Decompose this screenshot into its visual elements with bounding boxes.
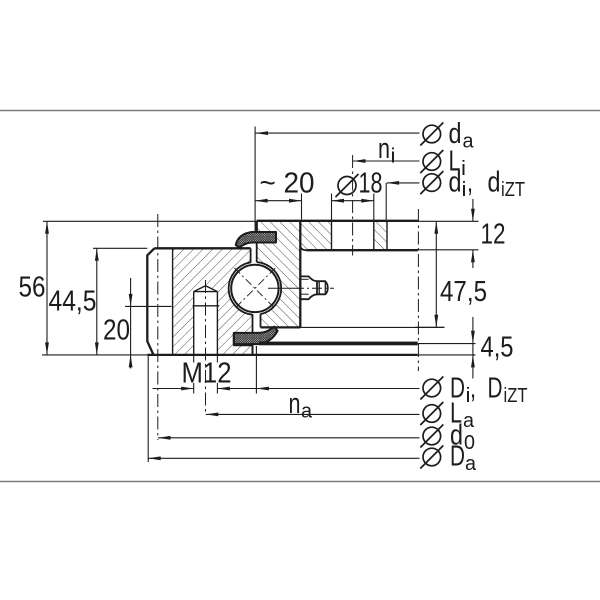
svg-text:n: n bbox=[378, 133, 390, 165]
svg-text:,: , bbox=[467, 167, 473, 199]
svg-text:4,5: 4,5 bbox=[481, 332, 514, 364]
svg-text:iZT: iZT bbox=[501, 179, 525, 201]
svg-text:a: a bbox=[465, 453, 477, 475]
svg-text:D: D bbox=[488, 373, 503, 405]
svg-text:i: i bbox=[461, 158, 466, 180]
svg-text:d: d bbox=[449, 167, 462, 199]
svg-text:56: 56 bbox=[19, 272, 46, 304]
svg-text:d: d bbox=[488, 167, 501, 199]
svg-text:0: 0 bbox=[464, 432, 475, 454]
svg-text:~ 20: ~ 20 bbox=[260, 168, 315, 200]
svg-text:44,5: 44,5 bbox=[49, 286, 97, 318]
svg-text:18: 18 bbox=[359, 168, 383, 200]
svg-text:iZT: iZT bbox=[504, 385, 528, 407]
svg-text:i: i bbox=[462, 179, 467, 201]
svg-text:i: i bbox=[391, 146, 396, 168]
svg-text:M12: M12 bbox=[182, 358, 232, 390]
svg-text:20: 20 bbox=[103, 315, 130, 347]
svg-text:a: a bbox=[463, 131, 475, 153]
svg-text:12: 12 bbox=[481, 219, 506, 251]
svg-text:D: D bbox=[450, 441, 465, 473]
svg-text:a: a bbox=[301, 401, 313, 423]
svg-text:a: a bbox=[463, 410, 475, 432]
svg-text:47,5: 47,5 bbox=[440, 276, 487, 308]
svg-text:n: n bbox=[289, 388, 301, 420]
svg-text:,: , bbox=[470, 373, 476, 405]
